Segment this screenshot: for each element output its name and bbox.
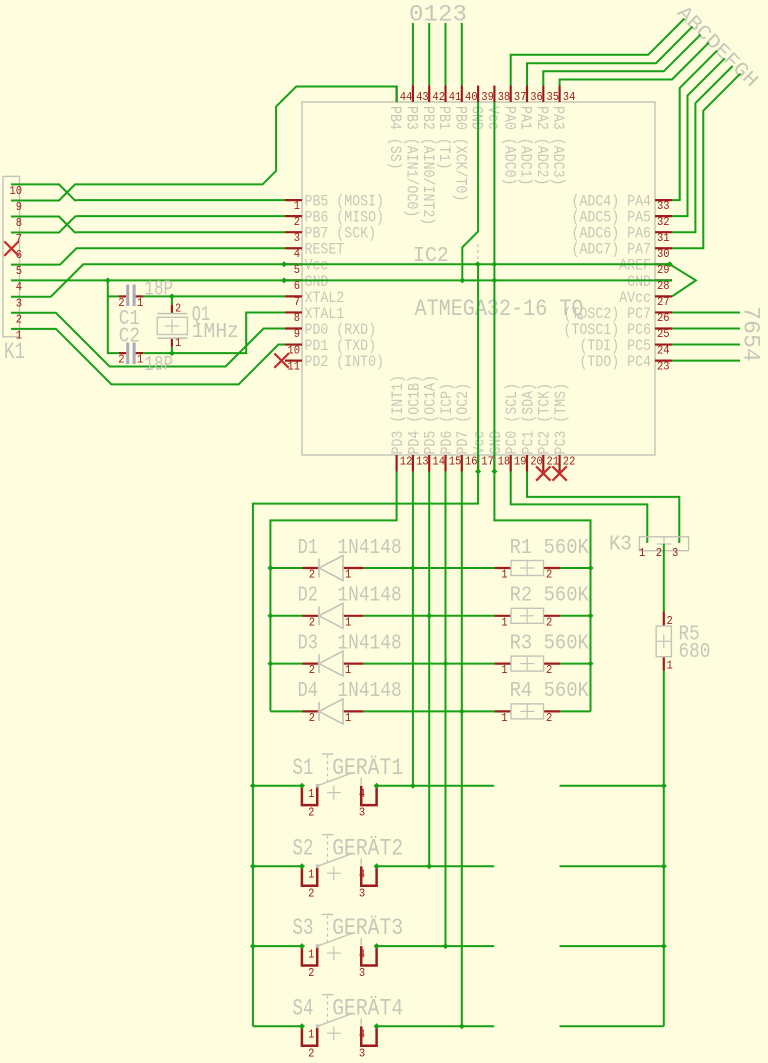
wire switch row 2 left: [253, 865, 302, 867]
svg-text:K1: K1: [4, 339, 25, 366]
capacitor C1: [118, 285, 143, 311]
svg-text:2: 2: [656, 546, 662, 560]
capacitor C2 label: [119, 326, 140, 349]
svg-text:3: 3: [359, 886, 365, 900]
wire switch row 3 middle: [377, 945, 495, 947]
ic IC2 pin 32 (ADC5) PA5: [572, 209, 673, 229]
wire IC pin13 column: [412, 472, 414, 786]
resistor R2: [495, 608, 560, 629]
svg-text:PD4 (OC1B): PD4 (OC1B): [405, 375, 423, 455]
svg-text:10: 10: [9, 184, 22, 198]
svg-text:1: 1: [308, 868, 314, 882]
wire diode row 2 middle: [363, 615, 494, 617]
ic IC2 pin 42 PB2 (AIN0/INT2): [419, 86, 445, 226]
no-connect X on K1 pin 6: [4, 241, 18, 255]
svg-text:1N4148: 1N4148: [337, 632, 401, 655]
ic IC2 pin 39 GND: [468, 86, 494, 130]
svg-text:PB4 (SS): PB4 (SS): [386, 106, 404, 170]
svg-text:8: 8: [16, 216, 22, 230]
svg-text:GERÄT1: GERÄT1: [332, 754, 403, 782]
svg-text:7: 7: [294, 295, 300, 309]
wire IC pin14 column: [428, 472, 430, 867]
wire K1 pin1 to PD1 (IC pin10): [11, 329, 285, 385]
connector K1 pin 9 number: [16, 200, 22, 214]
ic IC2 pin 10 PD1 (TXD): [285, 337, 376, 357]
svg-text:C2: C2: [119, 326, 140, 349]
resistor R4: [495, 704, 560, 725]
svg-text:2: 2: [667, 614, 673, 628]
wire F to IC pin 32: [672, 58, 725, 216]
svg-text:39: 39: [481, 90, 494, 104]
ic IC2 pin 36 PA1 (ADC1): [517, 86, 543, 186]
svg-text:D3: D3: [298, 632, 318, 655]
svg-text:K3: K3: [609, 534, 632, 557]
diode D3: [303, 651, 364, 677]
svg-text:9: 9: [16, 200, 22, 214]
svg-text:2: 2: [309, 568, 315, 582]
svg-text:4: 4: [359, 1028, 365, 1042]
ic IC2 pin 8 XTAL1: [285, 305, 344, 325]
svg-text:2: 2: [16, 312, 22, 326]
svg-text:AREF: AREF: [619, 257, 651, 275]
svg-text:2: 2: [308, 806, 314, 820]
connector K1 pin 3 number: [16, 296, 22, 310]
svg-text:(ADC4) PA4: (ADC4) PA4: [572, 193, 652, 211]
wire diode row 3 middle: [363, 663, 494, 665]
switch S2: [302, 835, 377, 901]
svg-text:14: 14: [432, 455, 445, 469]
svg-text:1: 1: [175, 336, 181, 350]
wire switch row 3 left: [253, 945, 302, 947]
ic IC2 pin 6 GND: [285, 273, 328, 293]
ic IC2 pin 12 PD3 (INT1): [389, 375, 412, 472]
connector K1 pin 6 number: [16, 248, 22, 262]
wire diode row 4 right: [560, 710, 591, 712]
ic IC2 pin 20 PC1 (SDA): [519, 383, 542, 472]
svg-text:15: 15: [449, 455, 462, 469]
ic IC2 body: [302, 102, 655, 455]
ic IC2 pin 29 AREF: [619, 257, 672, 277]
no-connect X on IC pin11: [274, 353, 288, 367]
wire digit 1 to IC pin 42: [428, 23, 430, 86]
svg-text:1: 1: [308, 1028, 314, 1042]
svg-text:PB0 (XCK/T0): PB0 (XCK/T0): [451, 106, 469, 201]
svg-text:2: 2: [309, 711, 315, 725]
svg-text:1: 1: [501, 663, 507, 677]
svg-text:(ADC7) PA7: (ADC7) PA7: [572, 241, 652, 259]
svg-text:1: 1: [308, 947, 314, 961]
ic IC2 pin 41 PB1 (T1): [435, 86, 461, 170]
resistor R5 label: [679, 623, 700, 646]
connector K1 pin 5 number: [16, 264, 22, 278]
svg-text:2: 2: [546, 615, 552, 629]
svg-text:1N4148: 1N4148: [337, 680, 401, 703]
wire IC pin 23 PC4 stub: [672, 360, 740, 362]
svg-text:43: 43: [416, 90, 429, 104]
svg-text:PA0 (ADC0): PA0 (ADC0): [500, 106, 518, 186]
switch S1 label: [293, 755, 314, 782]
svg-text:D1: D1: [298, 537, 318, 560]
wire Vcc column pin38 to pin18 and R bus: [494, 102, 590, 711]
crystal Q1 value: [192, 321, 239, 344]
diode D1: [303, 556, 364, 582]
resistor R4 label: [510, 680, 590, 703]
svg-text:18P: 18P: [144, 278, 173, 301]
wire digit 2 to IC pin 41: [445, 23, 447, 86]
svg-text:2: 2: [175, 302, 181, 316]
switch S1 value: [332, 754, 403, 782]
connector K3 pin numbers: [639, 546, 678, 560]
svg-text:2: 2: [546, 568, 552, 582]
resistor R3: [495, 656, 560, 677]
svg-text:3: 3: [16, 296, 22, 310]
wire E to IC pin 33: [672, 51, 717, 201]
no-connect X on IC pin22: [552, 466, 566, 480]
svg-text:2: 2: [546, 663, 552, 677]
svg-text:12: 12: [400, 455, 413, 469]
svg-text:1MHz: 1MHz: [192, 321, 239, 344]
svg-text:2: 2: [294, 215, 300, 229]
wire K1 pin7 to IC pin2: [11, 216, 285, 232]
svg-text:2: 2: [308, 886, 314, 900]
svg-text:40: 40: [465, 90, 478, 104]
wire IC pin16 column: [461, 472, 463, 1027]
wire switch row 2 middle: [377, 865, 495, 867]
ic IC2 pin 25 (TOSC1) PC6: [564, 321, 672, 341]
connector K1 body: [3, 176, 20, 336]
svg-text:PA1 (ADC1): PA1 (ADC1): [517, 106, 535, 186]
wire K1 pin9 to IC pin44 (PB4): [11, 87, 397, 201]
diode D1 label: [298, 537, 318, 560]
switch S2 label: [293, 835, 314, 862]
wire XTAL2 row C1 to IC pin7: [143, 295, 285, 297]
wire K3 pin2 to R5: [663, 544, 665, 612]
connector K3 label: [609, 534, 632, 557]
ic IC2 pin 26 (TOSC2) PC7: [564, 305, 672, 325]
svg-text:1: 1: [639, 546, 645, 560]
svg-text:25: 25: [657, 327, 670, 341]
svg-text:22: 22: [563, 455, 576, 469]
ic IC2 pin 40 PB0 (XCK/T0): [451, 86, 477, 202]
svg-text:PA2 (ADC2): PA2 (ADC2): [533, 106, 551, 186]
crystal Q1: [157, 302, 187, 350]
wire B to IC pin 36: [527, 26, 693, 85]
svg-text:16: 16: [465, 455, 478, 469]
wire switch row 1 middle: [377, 785, 495, 787]
wire GND branch to C1: [108, 295, 119, 297]
wire diode row 1 middle: [363, 567, 494, 569]
svg-text:13: 13: [416, 455, 429, 469]
wire diode row 3 left: [270, 663, 302, 665]
wire IC pin20 to K3 pin3: [527, 472, 679, 544]
ic IC2 pin 15 PD6 (ICP): [438, 383, 461, 472]
wire switch row 1 right: [560, 785, 664, 787]
svg-text:R3 560K: R3 560K: [510, 632, 590, 655]
ic IC2 pin 11 PD2 (INT0): [285, 353, 384, 373]
svg-text:4: 4: [359, 787, 365, 801]
wire D to IC pin 34: [560, 43, 709, 86]
resistor R5 value: [679, 641, 711, 664]
svg-text:0123: 0123: [409, 2, 467, 29]
label ABCDEFGH: [672, 2, 763, 93]
wire H to IC pin 30: [672, 74, 740, 249]
wire crystal Q1 top: [171, 296, 173, 305]
crystal Q1 label: [192, 304, 211, 327]
svg-text:38: 38: [498, 90, 511, 104]
wire digit 3 to IC pin 40: [461, 23, 463, 86]
svg-text:D4: D4: [298, 680, 318, 703]
svg-text:2: 2: [546, 711, 552, 725]
svg-text:4: 4: [294, 247, 300, 261]
svg-text:35: 35: [547, 90, 560, 104]
wire GND row K1 pin4 across IC to pin28: [11, 279, 672, 281]
connector K1 pin 10 number: [9, 184, 22, 198]
ic IC2 pin 35 PA2 (ADC2): [533, 86, 559, 186]
svg-text:GERÄT2: GERÄT2: [332, 834, 403, 862]
resistor R5: [656, 612, 673, 673]
connector K1 pin 8 number: [16, 216, 22, 230]
ic IC2 origin mark: [477, 244, 479, 266]
svg-text:1: 1: [501, 615, 507, 629]
svg-text:PD7 (OC2): PD7 (OC2): [454, 383, 472, 455]
wire IC pin 24 PC5 stub: [672, 344, 740, 346]
svg-text:ATMEGA32-16 TQ: ATMEGA32-16 TQ: [415, 296, 584, 323]
ic IC2 pin 13 PD4 (OC1B): [405, 375, 428, 472]
connector K1 pin 7 number: [16, 232, 22, 246]
wire crystal Q1 bottom: [171, 347, 173, 354]
svg-text:R4 560K: R4 560K: [510, 680, 590, 703]
diode D1 value: [337, 537, 401, 560]
ic IC2 pin 4 RESET: [285, 241, 344, 261]
ic IC2 pin 21 PC2 (TCK): [536, 383, 559, 472]
ic IC2 pin 1 PB5 (MOSI): [285, 193, 384, 213]
ic IC2 pin 30 (ADC7) PA7: [572, 241, 673, 261]
svg-text:2: 2: [308, 1046, 314, 1060]
wire switch row 3 right: [560, 945, 664, 947]
svg-text:(TDO) PC4: (TDO) PC4: [579, 353, 651, 371]
wire C to IC pin 35: [543, 34, 700, 85]
svg-text:PC0 (SCL): PC0 (SCL): [503, 383, 521, 455]
wire diode row 1 right: [560, 567, 591, 569]
svg-text:18P: 18P: [144, 354, 173, 377]
wire switch row 4 right: [560, 1025, 664, 1027]
svg-text:33: 33: [657, 199, 670, 213]
svg-text:S2: S2: [293, 835, 314, 862]
connector K1 label: [4, 339, 25, 366]
svg-text:19: 19: [514, 455, 527, 469]
ic IC2 pin 16 PD7 (OC2): [454, 383, 477, 472]
resistor R3 label: [510, 632, 590, 655]
svg-text:3: 3: [359, 806, 365, 820]
ic IC2 pin 23 (TDO) PC4: [579, 353, 672, 373]
ic IC2 name label: [413, 245, 449, 268]
svg-text:4: 4: [359, 868, 365, 882]
svg-text:1: 1: [137, 353, 143, 367]
capacitor C2: [118, 343, 143, 367]
svg-text:Vcc: Vcc: [471, 431, 489, 455]
svg-text:PD3 (INT1): PD3 (INT1): [389, 375, 407, 455]
resistor R2 label: [510, 585, 590, 608]
wire A to IC pin 37: [511, 19, 685, 86]
svg-text:1: 1: [501, 568, 507, 582]
wire Vcc row to pin17 and switch bus: [253, 264, 478, 1026]
svg-text:GERÄT3: GERÄT3: [332, 914, 403, 942]
svg-text:2: 2: [309, 615, 315, 629]
svg-text:S1: S1: [293, 755, 314, 782]
capacitor C1 label: [119, 308, 140, 331]
svg-text:11: 11: [287, 359, 300, 373]
switch S3 label: [293, 915, 314, 942]
wire IC pin15 column: [445, 472, 447, 947]
svg-text:4: 4: [16, 280, 22, 294]
svg-text:R1 560K: R1 560K: [510, 537, 590, 560]
ic IC2 value label: [415, 296, 584, 323]
svg-text:S4: S4: [293, 995, 314, 1022]
svg-text:PB2 (AIN0/INT2): PB2 (AIN0/INT2): [419, 106, 437, 225]
wire diode row 2 left: [270, 615, 302, 617]
svg-text:2: 2: [118, 353, 124, 367]
capacitor C2 value: [144, 354, 173, 377]
svg-text:S3: S3: [293, 915, 314, 942]
svg-text:24: 24: [657, 343, 670, 357]
switch S2 value: [332, 834, 403, 862]
svg-text:1: 1: [345, 711, 351, 725]
wire K1 pin10 to IC pin1: [11, 184, 285, 200]
switch S3: [302, 914, 377, 980]
wire AREF-AVcc chevron: [670, 264, 696, 296]
svg-text:3: 3: [359, 1046, 365, 1060]
svg-text:D2: D2: [298, 585, 318, 608]
svg-text:3: 3: [672, 546, 678, 560]
wire GND branch to C1/C2: [108, 280, 119, 353]
wire digit 0 to IC pin 43: [412, 23, 414, 86]
ic IC2 pin 27 AVcc: [619, 289, 672, 309]
diode D4: [303, 699, 364, 725]
resistor R1: [495, 561, 560, 582]
wire switch row 1 left: [253, 785, 302, 787]
svg-text:PC2 (TCK): PC2 (TCK): [536, 383, 554, 455]
switch S4 value: [332, 994, 403, 1022]
ic IC2 pin 3 PB7 (SCK): [285, 225, 376, 245]
svg-text:34: 34: [563, 90, 576, 104]
svg-text:4: 4: [359, 947, 365, 961]
ic IC2 pin 24 (TDI) PC5: [579, 337, 672, 357]
ic IC2 pin 34 PA3 (ADC3): [549, 86, 575, 186]
ic IC2 pin 18 GND: [487, 431, 510, 472]
ic IC2 pin 33 (ADC4) PA4: [572, 193, 673, 213]
svg-text:10: 10: [287, 343, 300, 357]
svg-text:GND: GND: [468, 106, 486, 130]
connector K1 pin 2 number: [16, 312, 22, 326]
svg-text:17: 17: [481, 455, 494, 469]
svg-text:(TOSC1) PC6: (TOSC1) PC6: [564, 321, 651, 339]
switch S4 label: [293, 995, 314, 1022]
wire K1 pin5 to RESET (IC pin4): [11, 248, 285, 264]
wire R5 to switch bus: [663, 671, 665, 1027]
wire XTAL1 row C2 to IC pin8: [143, 312, 285, 353]
svg-text:1: 1: [308, 787, 314, 801]
svg-text:GND: GND: [627, 273, 651, 291]
switch S1: [302, 754, 377, 820]
svg-text:R2 560K: R2 560K: [510, 585, 590, 608]
diode D3 value: [337, 632, 401, 655]
connector K1 pin 4 number: [16, 280, 22, 294]
wire IC pin 25 PC6 stub: [672, 328, 740, 330]
svg-text:PB3 (AIN1/OC0): PB3 (AIN1/OC0): [403, 106, 421, 217]
svg-text:5: 5: [16, 264, 22, 278]
capacitor C1 value: [144, 278, 173, 301]
svg-text:PB1 (T1): PB1 (T1): [435, 106, 453, 170]
svg-text:44: 44: [400, 90, 413, 104]
svg-text:680: 680: [679, 641, 711, 664]
ic IC2 pin 37 PA0 (ADC0): [500, 86, 526, 186]
label 7654: [737, 306, 764, 362]
wire diode row 4 left: [270, 710, 302, 712]
svg-text:2: 2: [309, 663, 315, 677]
wire K1 pin8 to IC pin3: [11, 217, 285, 233]
wire IC pin 26 PC7 stub: [672, 311, 740, 313]
svg-text:36: 36: [530, 90, 543, 104]
ic IC2 pin 44 PB4 (SS): [386, 86, 412, 170]
svg-text:1: 1: [501, 711, 507, 725]
wire switch row 2 right: [560, 865, 664, 867]
svg-text:GERÄT4: GERÄT4: [332, 994, 403, 1022]
svg-text:Vcc: Vcc: [484, 106, 502, 130]
svg-text:PC3 (TMS): PC3 (TMS): [552, 383, 570, 455]
wire IC pin19 to K3 pin1: [511, 472, 648, 544]
resistor R1 label: [510, 537, 590, 560]
connector K1 pin 1 number: [16, 328, 22, 342]
diode D4 label: [298, 680, 318, 703]
svg-text:8: 8: [294, 311, 300, 325]
ic IC2 pin 19 PC0 (SCL): [503, 383, 526, 472]
ic IC2 pin 7 XTAL2: [285, 289, 344, 309]
no-connect X on IC pin21: [536, 466, 550, 480]
svg-text:18: 18: [498, 455, 511, 469]
diode D2: [303, 603, 364, 629]
svg-text:42: 42: [432, 90, 445, 104]
svg-text:PD2 (INT0): PD2 (INT0): [305, 353, 385, 371]
svg-text:2: 2: [308, 966, 314, 980]
svg-text:9: 9: [294, 327, 300, 341]
svg-text:3: 3: [294, 231, 300, 245]
wire diode row 3 right: [560, 663, 591, 665]
wire K1 pin2 to PD0 (IC pin9): [11, 313, 285, 367]
svg-text:37: 37: [514, 90, 527, 104]
svg-text:30: 30: [657, 247, 670, 261]
svg-text:31: 31: [657, 231, 670, 245]
svg-text:26: 26: [657, 311, 670, 325]
diode D2 label: [298, 585, 318, 608]
ic IC2 pin 2 PB6 (MISO): [285, 209, 384, 229]
svg-text:PA3 (ADC3): PA3 (ADC3): [549, 106, 567, 186]
ic IC2 pin 5 Vcc: [285, 257, 328, 277]
ic IC2 pin 9 PD0 (RXD): [285, 321, 376, 341]
ic IC2 pin 38 Vcc: [484, 86, 510, 130]
ic IC2 pin 22 PC3 (TMS): [552, 383, 575, 472]
svg-text:PC1 (SDA): PC1 (SDA): [519, 383, 537, 455]
svg-text:7654: 7654: [737, 306, 764, 362]
svg-text:GND: GND: [487, 431, 505, 455]
svg-text:1N4148: 1N4148: [337, 585, 401, 608]
wire IC pin12 to diode bus: [270, 472, 396, 712]
wire GND column pin39 jog to GND row: [462, 102, 478, 280]
svg-text:PD5 (OC1A): PD5 (OC1A): [422, 375, 440, 455]
ic IC2 pin 28 GND: [627, 273, 672, 293]
label 0123: [409, 2, 467, 29]
ic IC2 pin 14 PD5 (OC1A): [422, 375, 445, 472]
ic IC2 pin 17 Vcc: [471, 431, 494, 472]
